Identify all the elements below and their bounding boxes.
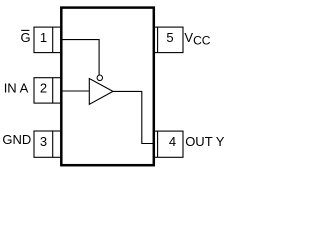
svg-text:5: 5 (166, 30, 173, 45)
svg-text:IN A: IN A (4, 81, 29, 96)
svg-text:2: 2 (40, 81, 47, 96)
svg-text:GND: GND (2, 132, 31, 147)
svg-text:OUT Y: OUT Y (185, 134, 225, 149)
svg-text:1: 1 (40, 30, 47, 45)
svg-text:3: 3 (40, 134, 47, 149)
svg-text:G: G (21, 30, 31, 45)
svg-text:VCC: VCC (184, 30, 210, 48)
svg-text:4: 4 (169, 134, 176, 149)
